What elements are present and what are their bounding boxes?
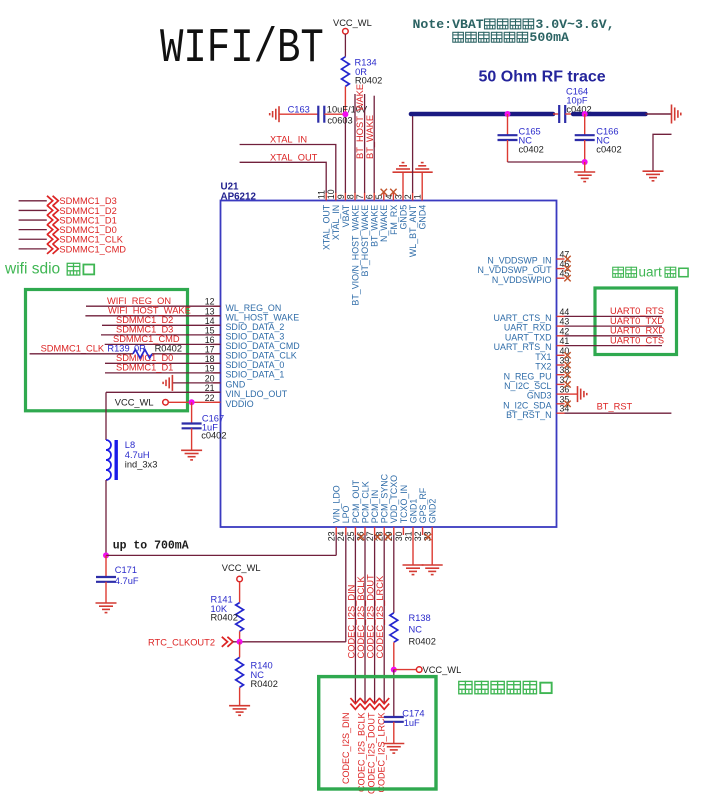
wire R139 to pin 17: [152, 353, 221, 355]
wire R141 to junction: [239, 631, 241, 642]
wire C165 top lead: [507, 114, 509, 135]
no-connect X pin 37: [564, 381, 570, 387]
svg-text:0R: 0R: [134, 344, 146, 354]
ground below C171: [96, 603, 117, 613]
pin 10 stub (XTAL_IN): [335, 193, 337, 201]
svg-text:SDIO_DATA_CLK: SDIO_DATA_CLK: [226, 350, 297, 360]
svg-text:24: 24: [336, 531, 346, 541]
svg-text:R134: R134: [355, 57, 377, 67]
pin 20 stub (GND): [213, 382, 221, 384]
svg-text:CODEC_I2S_BCLK: CODEC_I2S_BCLK: [356, 713, 366, 793]
svg-text:PCM_IN: PCM_IN: [370, 490, 380, 524]
svg-text:UART_RTS_N: UART_RTS_N: [494, 342, 552, 352]
inductor L8: [106, 440, 111, 480]
svg-text:UART0_TXD: UART0_TXD: [610, 316, 664, 326]
wire SDMMC1_CMD to pin 16: [105, 343, 221, 345]
wire junction to ground below C166: [584, 162, 586, 172]
svg-text:CODEC_I2S_BCLK: CODEC_I2S_BCLK: [356, 576, 366, 659]
svg-text:VIN_LDO_OUT: VIN_LDO_OUT: [226, 389, 288, 399]
svg-text:10: 10: [326, 189, 336, 199]
svg-text:34: 34: [560, 404, 570, 414]
ground sideways pin 20: [163, 375, 172, 391]
resistor R139: [133, 350, 152, 359]
svg-text:WIFI_HOST_WAKE: WIFI_HOST_WAKE: [108, 306, 191, 316]
wire BT_VIO/N_HOST_WAKE pin 8: [354, 94, 356, 193]
capacitor C174: [384, 717, 404, 722]
wire R138 to junction: [393, 642, 395, 669]
svg-text:R139: R139: [107, 344, 129, 354]
wire UART0_RXD to pin 42: [565, 335, 663, 337]
wire UART0_RTS to pin 44: [565, 315, 663, 317]
C164 right lead: [565, 113, 573, 115]
pin 28 stub (PCM_SYNC): [383, 527, 385, 535]
wire C166 top lead: [584, 114, 586, 135]
wire rail to pin 23 VIN_LDO: [335, 535, 337, 555]
wire C171 to ground: [105, 582, 107, 603]
svg-text:SDMMC1_D1: SDMMC1_D1: [59, 215, 116, 225]
pin 26 stub (PCM_CLK): [364, 527, 366, 535]
resistor R134: [342, 57, 350, 87]
svg-text:PCM_SYNC: PCM_SYNC: [380, 473, 390, 523]
pin 46 stub (N_VDDSWP_OUT): [557, 268, 565, 270]
junction VBAT C163: [342, 111, 348, 117]
pin 12 stub (WL_REG_ON): [213, 305, 221, 307]
pin 8 stub (BT_VIO/N_HOST_WAKE): [354, 193, 356, 201]
svg-text:UART_CTS_N: UART_CTS_N: [493, 313, 551, 323]
wire SDMMC1_CLK harness: [19, 238, 47, 240]
svg-text:32: 32: [413, 531, 423, 541]
pin 19 stub (SDIO_DATA_1): [213, 372, 221, 374]
pin 35 stub (N_I2C_SDA): [557, 403, 565, 405]
svg-text:13: 13: [205, 306, 215, 316]
wire VCC_WL to R134: [344, 34, 346, 57]
wire BT_HOST_WAKE pin 7: [364, 94, 366, 193]
svg-text:19: 19: [205, 363, 215, 373]
label bluetooth uart interface: [613, 267, 624, 278]
svg-text:C174: C174: [402, 709, 424, 719]
pin 33 stub (GND2): [431, 527, 433, 535]
RF trace thick segment right: [573, 112, 645, 117]
capacitor C166: [575, 135, 595, 140]
no-connect X pin 39: [564, 362, 570, 368]
ground below R140: [229, 706, 250, 716]
green box wifi sdio: [26, 290, 188, 411]
pin 37 stub (N_I2C_SCL): [557, 383, 565, 385]
no-connect X pin 5 N_WAKE: [381, 189, 387, 195]
wire junction down to C174: [393, 670, 395, 717]
resistor R140: [236, 657, 244, 687]
capacitor C171: [96, 577, 116, 582]
svg-text:SDMMC1_D0: SDMMC1_D0: [116, 353, 173, 363]
ground GND4 inverted: [412, 163, 433, 173]
svg-text:wifi sdio: wifi sdio: [4, 261, 60, 278]
svg-text:7: 7: [355, 194, 365, 199]
wire XTAL_OUT: [240, 162, 327, 193]
svg-text:NC: NC: [409, 625, 423, 635]
pin 17 stub (SDIO_DATA_CLK): [213, 353, 221, 355]
wire SDMMC1_D2 harness: [19, 209, 47, 211]
svg-text:14: 14: [205, 316, 215, 326]
pin 22 stub (VDDIO): [213, 401, 221, 403]
wire WIFI_HOST_WAKE to pin 13: [85, 315, 220, 317]
no-connect X pin 4 FM_RX: [390, 189, 396, 195]
svg-text:27: 27: [365, 531, 375, 541]
ground below C166: [574, 172, 595, 182]
svg-text:SDMMC1_D3: SDMMC1_D3: [59, 196, 116, 206]
svg-text:9: 9: [336, 194, 346, 199]
wire VCC_WL to R141: [239, 582, 241, 603]
svg-text:SDMMC1_CLK: SDMMC1_CLK: [41, 344, 105, 354]
wire junction to R140: [239, 642, 241, 658]
junction C165 on trace: [505, 111, 511, 117]
pin 42 stub (UART_TXD): [557, 335, 565, 337]
svg-text:PCM_CLK: PCM_CLK: [360, 481, 370, 523]
svg-text:ind_3x3: ind_3x3: [125, 460, 158, 470]
svg-text:36: 36: [560, 385, 570, 395]
svg-text:Note:VBAT: Note:VBAT: [413, 17, 484, 32]
ground GND5 inverted: [393, 163, 414, 173]
wire junction to VCC_WL circle: [394, 669, 417, 671]
svg-text:BT_HOST_WAKE: BT_HOST_WAKE: [360, 205, 370, 277]
svg-text:SDMMC1_CMD: SDMMC1_CMD: [59, 244, 126, 254]
wire pin 29 VDD_TCXO down: [393, 535, 395, 613]
svg-text:BT_WAKE: BT_WAKE: [370, 205, 380, 247]
svg-text:22: 22: [205, 393, 215, 403]
pin 14 stub (SDIO_DATA_2): [213, 324, 221, 326]
connector chevron CODEC_I2S_BCLK: [360, 698, 370, 709]
wire UART0_CTS to pin 41: [565, 345, 663, 347]
svg-text:CODEC_I2S_DOUT: CODEC_I2S_DOUT: [366, 574, 376, 659]
svg-text:SDIO_DATA_0: SDIO_DATA_0: [226, 360, 285, 370]
pin 25 stub (PCM_OUT): [354, 527, 356, 535]
svg-text:CODEC_I2S_DOUT: CODEC_I2S_DOUT: [366, 712, 376, 794]
svg-text:4.7uF: 4.7uF: [115, 576, 139, 586]
svg-text:UART_RXD: UART_RXD: [504, 323, 552, 333]
power port VCC_WL right: [416, 667, 422, 673]
connector chevron CODEC_I2S_LRCK: [379, 698, 389, 709]
svg-text:GND1: GND1: [408, 499, 418, 524]
wire SDMMC1_D1 to pin 19: [105, 372, 221, 374]
svg-text:21: 21: [205, 383, 215, 393]
resistor R138: [390, 613, 398, 642]
junction R138 VCC C174: [391, 667, 397, 673]
svg-text:GND3: GND3: [527, 391, 552, 401]
wire pin 20 GND to ground: [172, 382, 220, 384]
pin 32 stub (GPS_RF): [422, 527, 424, 535]
svg-text:XTAL_OUT: XTAL_OUT: [322, 204, 332, 250]
svg-text:SDIO_DATA_1: SDIO_DATA_1: [226, 370, 285, 380]
pin 30 stub (TCXO_IN): [402, 527, 404, 535]
svg-text:CODEC_I2S_DIN: CODEC_I2S_DIN: [346, 585, 356, 659]
svg-text:SDMMC1_D2: SDMMC1_D2: [59, 206, 116, 216]
wire RTC_CLKOUT2: [233, 641, 346, 643]
green box audio: [319, 677, 436, 789]
svg-text:N_I2C_SCL: N_I2C_SCL: [504, 381, 551, 391]
wire C174 to ground: [393, 722, 395, 743]
wire pin 2 WL_BT_ANT to RF trace: [412, 114, 414, 193]
svg-text:GPS_RF: GPS_RF: [418, 487, 428, 523]
ground below C167: [181, 450, 202, 460]
svg-text:WIFI_REG_ON: WIFI_REG_ON: [107, 296, 171, 306]
svg-text:WL_REG_ON: WL_REG_ON: [226, 303, 282, 313]
svg-text:BT_WAKE: BT_WAKE: [365, 115, 375, 159]
no-connect X pin 47: [564, 256, 570, 262]
svg-text:18: 18: [205, 354, 215, 364]
svg-text:N_VDDSWPIO: N_VDDSWPIO: [492, 275, 552, 285]
connector chevron SDMMC1_CMD: [47, 244, 58, 254]
pin 44 stub (UART_CTS_N): [557, 315, 565, 317]
no-connect X bottom: [358, 534, 364, 540]
svg-text:4: 4: [384, 194, 394, 199]
pin 36 stub (GND3): [557, 393, 565, 395]
svg-text:UART0_CTS: UART0_CTS: [610, 335, 664, 345]
svg-text:3: 3: [393, 194, 403, 199]
pin 7 stub (BT_HOST_WAKE): [364, 193, 366, 201]
svg-text:15: 15: [205, 325, 215, 335]
svg-text:R0402: R0402: [409, 637, 436, 647]
wire CODEC_I2S_DIN from pin 25: [354, 535, 356, 704]
pin 2 stub (WL_BT_ANT): [412, 193, 414, 201]
svg-text:41: 41: [560, 336, 570, 346]
pin 24 stub (LPO): [345, 527, 347, 535]
svg-text:N_REG_PU: N_REG_PU: [504, 371, 552, 381]
svg-text:31: 31: [403, 531, 413, 541]
svg-text:XTAL_OUT: XTAL_OUT: [270, 153, 318, 163]
connector chevron SDMMC1_D1: [47, 215, 58, 225]
wire SDMMC1_CLK left of R139: [30, 353, 133, 355]
RF trace thick segment left: [411, 112, 553, 117]
pin 23 stub (VIN_LDO): [335, 527, 337, 535]
connector chevron SDMMC1_CLK: [47, 234, 58, 244]
svg-text:L8: L8: [125, 440, 135, 450]
ground below C174: [383, 744, 404, 754]
wire C165 to C166 bottom: [508, 161, 585, 163]
wire down to C167: [191, 402, 193, 423]
svg-text:WL_BT_ANT: WL_BT_ANT: [408, 204, 418, 257]
ground GND2: [422, 565, 443, 575]
svg-text:XTAL_IN: XTAL_IN: [331, 205, 341, 240]
svg-text:R0402: R0402: [155, 344, 182, 354]
svg-text:up to 700mA: up to 700mA: [113, 539, 189, 552]
wire R140 to ground: [239, 687, 241, 705]
ground GND1: [403, 565, 424, 575]
svg-text:c0402: c0402: [519, 145, 544, 155]
svg-text:UART0_RTS: UART0_RTS: [610, 306, 664, 316]
no-connect X pin 40: [564, 352, 570, 358]
wire pin 1 GND4 to ground: [421, 173, 423, 193]
connector chevron CODEC_I2S_DOUT: [370, 698, 380, 709]
no-connect X bottom: [385, 534, 391, 540]
junction C166 on trace: [582, 111, 588, 117]
wire XTAL_IN: [240, 145, 336, 193]
svg-text:50 Ohm RF trace: 50 Ohm RF trace: [479, 69, 606, 86]
svg-text:500mA: 500mA: [529, 30, 569, 45]
connector chevron RTC_CLKOUT2: [222, 637, 233, 647]
svg-text:12: 12: [205, 297, 215, 307]
svg-text:30: 30: [394, 531, 404, 541]
svg-text:WIFI/BT: WIFI/BT: [160, 21, 324, 76]
svg-text:RTC_CLKOUT2: RTC_CLKOUT2: [148, 637, 215, 647]
wire SDMMC1_D0 to pin 18: [105, 362, 221, 364]
wire L8 to junction: [105, 480, 107, 555]
svg-text:N_WAKE: N_WAKE: [379, 205, 389, 242]
svg-text:BT_VIO/N_HOST_WAKE: BT_VIO/N_HOST_WAKE: [350, 205, 360, 306]
svg-text:VCC_WL: VCC_WL: [115, 397, 154, 407]
svg-text:c0402: c0402: [201, 431, 226, 441]
svg-text:AP6212: AP6212: [221, 191, 257, 202]
svg-text:42: 42: [560, 326, 570, 336]
svg-text:C163: C163: [288, 104, 310, 114]
svg-text:TX2: TX2: [535, 362, 551, 372]
connector chevron CODEC_I2S_DIN: [350, 698, 360, 709]
pin 5 stub (N_WAKE): [383, 193, 385, 201]
wire pin 31 GND1 to ground: [412, 535, 414, 565]
wire pin 36 GND3 to ground: [565, 393, 578, 395]
svg-text:FM_RX: FM_RX: [389, 205, 399, 235]
wire junction to C171: [105, 555, 107, 577]
svg-text:VIN_LDO: VIN_LDO: [332, 485, 342, 523]
svg-text:TX1: TX1: [535, 352, 551, 362]
pin 31 stub (GND1): [412, 527, 414, 535]
wire RTC up to pin 24 LPO: [345, 535, 347, 642]
connector chevron SDMMC1_D0: [47, 225, 58, 235]
svg-text:LPO: LPO: [341, 505, 351, 523]
wire SDMMC1_D0 harness: [19, 229, 47, 231]
svg-text:TCXO_IN: TCXO_IN: [399, 485, 409, 523]
svg-text:R0402: R0402: [211, 613, 238, 623]
wire BT_RST pin 34: [565, 412, 672, 414]
svg-text:BT_RST_N: BT_RST_N: [506, 410, 551, 420]
pin 39 stub (TX2): [557, 364, 565, 366]
wire ground to C163: [279, 113, 318, 115]
wire SDMMC1_D2 to pin 14: [102, 324, 221, 326]
wire C165 bottom lead: [507, 140, 509, 162]
wire SDMMC1_D1 harness: [19, 219, 47, 221]
ground sideways GND3: [578, 386, 587, 402]
capacitor C167: [182, 424, 202, 429]
svg-text:SDMMC1_D2: SDMMC1_D2: [116, 315, 173, 325]
wire L-shape to ground right: [653, 134, 672, 171]
svg-text:BT_HOST_WAKE: BT_HOST_WAKE: [355, 84, 365, 159]
wire CODEC_I2S_LRCK from pin 28: [383, 535, 385, 704]
wire SDMMC1_D3 to pin 15: [101, 334, 221, 336]
svg-text:SDMMC1_CLK: SDMMC1_CLK: [59, 235, 123, 245]
svg-text:4.7uH: 4.7uH: [125, 450, 150, 460]
svg-text:SDMMC1_D1: SDMMC1_D1: [116, 363, 173, 373]
wire R134 to VBAT junction: [344, 86, 346, 114]
svg-text:N_VDDSWP_OUT: N_VDDSWP_OUT: [478, 265, 553, 275]
svg-text:GND5: GND5: [398, 205, 408, 230]
junction C167 tap: [189, 399, 195, 405]
svg-text:1: 1: [413, 194, 423, 199]
svg-text:SDMMC1_D0: SDMMC1_D0: [59, 225, 116, 235]
svg-text:5: 5: [374, 194, 384, 199]
wire VIN_LDO_OUT down to L8: [105, 392, 107, 440]
svg-text:c0402: c0402: [596, 145, 621, 155]
pin 11 stub (XTAL_OUT): [325, 193, 327, 201]
C164 left lead: [553, 113, 559, 115]
ground below L-wire: [643, 171, 664, 181]
pin 40 stub (TX1): [557, 354, 565, 356]
svg-text:N_VDDSWP_IN: N_VDDSWP_IN: [487, 256, 551, 266]
green box uart: [595, 288, 677, 355]
wire CODEC_I2S_DOUT from pin 27: [374, 535, 376, 704]
pin 9 stub (VBAT): [344, 193, 346, 201]
pin 18 stub (SDIO_DATA_0): [213, 362, 221, 364]
svg-text:SDIO_DATA_3: SDIO_DATA_3: [226, 332, 285, 342]
svg-text:23: 23: [327, 531, 337, 541]
svg-text:44: 44: [560, 307, 570, 317]
wire SDMMC1_D3 harness: [19, 200, 47, 202]
junction RTC R141 R140: [237, 639, 243, 645]
wire pin 33 GND2 to ground: [431, 535, 433, 565]
svg-text:UART0_RXD: UART0_RXD: [610, 326, 665, 336]
svg-text:UART_TXD: UART_TXD: [505, 332, 552, 342]
svg-text:CODEC_I2S_LRCK: CODEC_I2S_LRCK: [376, 713, 386, 793]
svg-text:VCC_WL: VCC_WL: [333, 18, 372, 28]
svg-text:VCC_WL: VCC_WL: [222, 563, 261, 573]
pin 38 stub (N_REG_PU): [557, 374, 565, 376]
svg-text:SDMMC1_D3: SDMMC1_D3: [116, 325, 173, 335]
resistor R141: [236, 603, 244, 632]
pin 21 stub (VIN_LDO_OUT): [213, 391, 221, 393]
junction bottom of C166: [582, 159, 588, 165]
wire up to 700mA rail: [106, 554, 336, 556]
no-connect X pin 45: [564, 275, 570, 281]
svg-text:R138: R138: [409, 613, 431, 623]
svg-text:1uF: 1uF: [404, 718, 420, 728]
capacitor C164: [559, 105, 565, 123]
svg-text:VDD_TCXO: VDD_TCXO: [389, 475, 399, 523]
pin 27 stub (PCM_IN): [374, 527, 376, 535]
svg-text:8: 8: [345, 194, 355, 199]
wire pin 21 VIN_LDO_OUT: [106, 391, 221, 393]
svg-text:WL_HOST_WAKE: WL_HOST_WAKE: [226, 312, 300, 322]
pin 45 stub (N_VDDSWPIO): [557, 277, 565, 279]
wire BT_WAKE pin 6: [373, 96, 375, 193]
svg-text:11: 11: [317, 190, 327, 199]
wire C167 to ground: [191, 428, 193, 450]
svg-text:VDDIO: VDDIO: [226, 399, 254, 409]
junction VCC rail: [103, 552, 109, 558]
IC U21 AP6212 chip body: [221, 201, 557, 528]
svg-text:CODEC_I2S_DIN: CODEC_I2S_DIN: [341, 713, 351, 785]
svg-text:PCM_OUT: PCM_OUT: [351, 479, 361, 523]
svg-text:XTAL_IN: XTAL_IN: [270, 135, 307, 145]
no-connect X pin 38: [564, 372, 570, 378]
pin 13 stub (WL_HOST_WAKE): [213, 315, 221, 317]
svg-text:C171: C171: [115, 565, 137, 575]
svg-text:GND2: GND2: [428, 499, 438, 524]
svg-text:2: 2: [403, 194, 413, 199]
svg-text:43: 43: [560, 317, 570, 327]
pin 16 stub (SDIO_DATA_CMD): [213, 343, 221, 345]
label bluetooth audio interface: [459, 681, 472, 694]
wire UART0_TXD to pin 43: [565, 325, 663, 327]
no-connect X bottom: [425, 534, 431, 540]
wire C166 bottom lead: [584, 140, 586, 162]
wire VCC_WL to pin 22: [168, 401, 220, 403]
svg-text:17: 17: [205, 344, 215, 354]
no-connect X pin 35: [564, 401, 570, 407]
wire SDMMC1_CMD harness: [19, 248, 47, 250]
capacitor C165: [498, 135, 518, 140]
pin 41 stub (UART_RTS_N): [557, 345, 565, 347]
svg-text:6: 6: [365, 194, 375, 199]
pin 4 stub (FM_RX): [392, 193, 394, 201]
svg-text:BT_RST: BT_RST: [597, 402, 633, 412]
pin 34 stub (BT_RST_N): [557, 412, 565, 414]
